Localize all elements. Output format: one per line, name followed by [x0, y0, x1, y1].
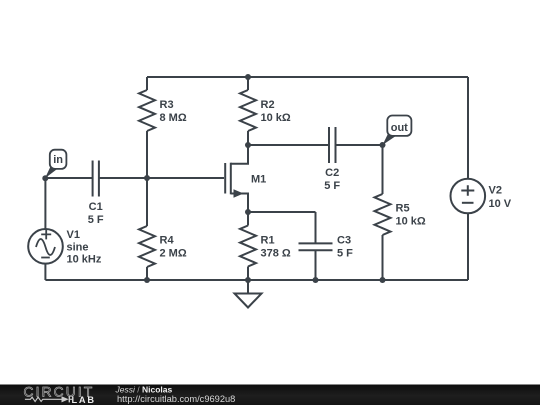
- svg-text:C2: C2: [325, 167, 339, 179]
- svg-text:sine: sine: [67, 241, 89, 253]
- svg-text:V1: V1: [67, 229, 80, 241]
- svg-text:C1: C1: [89, 201, 103, 213]
- svg-text:C3: C3: [337, 235, 351, 247]
- svg-text:10 kΩ: 10 kΩ: [261, 112, 291, 124]
- svg-text:M1: M1: [251, 174, 266, 186]
- svg-text:5 F: 5 F: [324, 180, 340, 192]
- svg-text:out: out: [391, 122, 408, 134]
- svg-text:http://circuitlab.com/c9692u8: http://circuitlab.com/c9692u8: [117, 394, 235, 404]
- svg-text:10 V: 10 V: [489, 198, 512, 210]
- svg-text:378 Ω: 378 Ω: [261, 248, 291, 260]
- svg-text:R3: R3: [160, 99, 174, 111]
- svg-text:in: in: [53, 154, 63, 166]
- svg-text:LAB: LAB: [72, 395, 96, 405]
- svg-text:R4: R4: [160, 235, 175, 247]
- svg-text:10 kΩ: 10 kΩ: [396, 216, 426, 228]
- svg-text:R2: R2: [261, 99, 275, 111]
- svg-text:8 MΩ: 8 MΩ: [160, 112, 187, 124]
- svg-text:5 F: 5 F: [337, 248, 353, 260]
- svg-text:2 MΩ: 2 MΩ: [160, 248, 187, 260]
- svg-text:5 F: 5 F: [88, 214, 104, 226]
- svg-text:10 kHz: 10 kHz: [67, 254, 102, 266]
- svg-text:R1: R1: [261, 235, 275, 247]
- svg-text:R5: R5: [396, 203, 410, 215]
- svg-text:V2: V2: [489, 185, 502, 197]
